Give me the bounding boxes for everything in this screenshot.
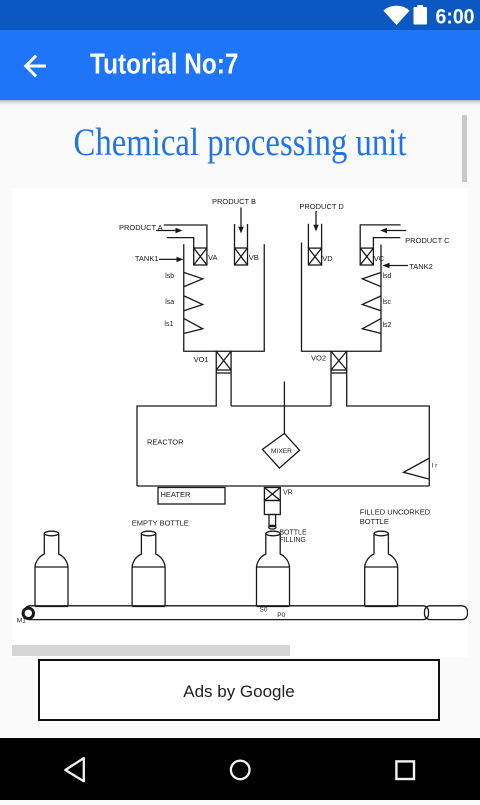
- valve VD: [308, 248, 321, 265]
- svg-text:lsa: lsa: [165, 299, 174, 306]
- horizontal scrollbar: [12, 645, 290, 656]
- svg-text:6:00: 6:00: [436, 6, 475, 29]
- svg-text:VO2: VO2: [311, 354, 326, 363]
- valve VR: [264, 488, 280, 501]
- svg-text:BOTTLE: BOTTLE: [279, 530, 307, 537]
- svg-text:VO1: VO1: [194, 355, 209, 364]
- level sensor ls2: [362, 319, 381, 334]
- wifi icon: [383, 6, 409, 25]
- svg-text:PRODUCT C: PRODUCT C: [405, 236, 450, 245]
- arrow TANK2: [383, 263, 409, 268]
- app bar: [0, 30, 480, 100]
- level sensor lsc: [362, 296, 381, 311]
- bottle B4 (filled): [365, 531, 398, 606]
- svg-text:REACTOR: REACTOR: [147, 437, 184, 446]
- nav home circle: [231, 761, 250, 780]
- nav recents square: [396, 761, 414, 779]
- valve VO2 bottom line: [331, 372, 347, 374]
- vertical scrollbar: [462, 115, 467, 182]
- svg-text:FILLED UNCORKED: FILLED UNCORKED: [360, 508, 431, 517]
- svg-text:ls1: ls1: [164, 321, 173, 328]
- svg-text:EMPTY BOTTLE: EMPTY BOTTLE: [132, 519, 189, 528]
- valve VO2: [331, 351, 347, 370]
- navigation bar: [0, 738, 480, 800]
- svg-text:BOTTLE: BOTTLE: [360, 517, 389, 526]
- wire reactor top middle: [231, 405, 331, 407]
- svg-text:TANK1: TANK1: [135, 254, 159, 263]
- mixer U-MIXER: [263, 433, 300, 468]
- pipe PRODUCT D: [308, 224, 321, 248]
- svg-text:lsb: lsb: [165, 273, 174, 280]
- valve VR body: [264, 501, 280, 515]
- svg-text:MIXER: MIXER: [271, 448, 292, 455]
- flow arrow PRODUCT C: [380, 228, 406, 233]
- flow arrow PRODUCT B: [238, 208, 243, 234]
- pipe PRODUCT B: [235, 224, 248, 248]
- svg-text:lsc: lsc: [383, 299, 392, 306]
- svg-text:HEATER: HEATER: [161, 490, 191, 499]
- svg-text:S0: S0: [260, 606, 268, 613]
- status bar: [0, 0, 480, 30]
- svg-text:M1: M1: [17, 618, 26, 625]
- wire VO1 outlet right: [230, 370, 232, 406]
- mixer shaft: [283, 382, 285, 434]
- back arrow: [26, 57, 45, 75]
- valve VB: [235, 248, 248, 265]
- tank TANK1: [184, 244, 265, 351]
- valve VO1: [216, 351, 231, 370]
- svg-text:P0: P0: [277, 612, 285, 619]
- level sensor ls1: [184, 319, 203, 334]
- svg-text:I r: I r: [432, 462, 439, 469]
- valve VA: [194, 248, 207, 265]
- level sensor lsb: [184, 273, 203, 287]
- wire VO1 outlet left / reactor top-left / left wall: [137, 370, 216, 486]
- pipe PRODUCT A: [164, 225, 207, 248]
- reactor bottom: [137, 485, 429, 487]
- bottle B1 (empty): [35, 531, 68, 606]
- valve VC: [360, 248, 373, 265]
- tank TANK2: [302, 243, 382, 352]
- stirrer Ir: [404, 459, 429, 480]
- pipe PRODUCT C: [360, 225, 400, 248]
- conveyor belt segment 1: [25, 606, 429, 620]
- svg-text:PRODUCT B: PRODUCT B: [212, 197, 256, 206]
- battery icon: [414, 7, 428, 25]
- svg-text:VD: VD: [322, 254, 333, 263]
- nav back triangle: [65, 758, 84, 781]
- filler nozzle: [269, 515, 276, 530]
- svg-text:ls2: ls2: [383, 322, 392, 329]
- svg-text:VR: VR: [283, 489, 293, 496]
- svg-text:VA: VA: [208, 253, 217, 262]
- motor M1: [23, 608, 33, 618]
- flow arrow PRODUCT A: [156, 228, 183, 233]
- level sensor lsd: [362, 273, 381, 287]
- wire VO2 outlet left: [330, 370, 332, 406]
- svg-text:VB: VB: [249, 253, 259, 262]
- svg-text:FILLING: FILLING: [279, 537, 305, 544]
- ads box: [38, 659, 440, 721]
- flow arrow PRODUCT D: [313, 211, 318, 232]
- page title: [0, 100, 480, 106]
- level sensor lsa: [184, 296, 203, 311]
- valve VO1 bottom line: [216, 372, 231, 374]
- svg-text:TANK2: TANK2: [409, 262, 433, 271]
- bottle B3 (filling): [257, 531, 290, 606]
- svg-text:VC: VC: [374, 254, 385, 263]
- heater: [158, 488, 225, 505]
- arrow TANK1: [159, 257, 184, 262]
- wire VO2 outlet right / reactor top-right / right wall: [347, 370, 430, 486]
- svg-text:lsd: lsd: [383, 273, 392, 280]
- conveyor belt segment 2: [425, 606, 468, 620]
- svg-text:PRODUCT D: PRODUCT D: [299, 202, 344, 211]
- bottle B2 (empty): [132, 531, 165, 606]
